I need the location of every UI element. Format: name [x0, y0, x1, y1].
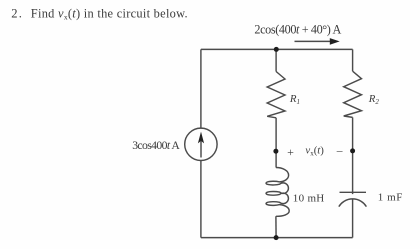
inductor L1 10 mH [266, 168, 289, 217]
svg-text:–: – [336, 145, 343, 157]
capacitor C1 top plate [340, 191, 367, 193]
svg-text:A: A [171, 139, 180, 152]
svg-text:R1: R1 [289, 93, 300, 106]
svg-text:10 mH: 10 mH [293, 193, 325, 205]
current source I1 arrow shaft [200, 141, 202, 158]
current direction arrowhead [330, 38, 340, 45]
resistor R2 [344, 71, 362, 117]
node dot bottom [274, 235, 279, 240]
svg-text:1 mF: 1 mF [378, 192, 403, 204]
wire bottom [201, 237, 353, 239]
current source I1 circle [185, 128, 217, 160]
node dot top [274, 47, 279, 52]
node dot vx minus [350, 148, 355, 153]
svg-text:2cos(400t + 40°) A: 2cos(400t + 40°) A [254, 22, 341, 36]
resistor R1 [267, 72, 285, 118]
svg-text:3cos400t: 3cos400t [132, 139, 171, 152]
wire middle branch mid [275, 118, 277, 168]
wire right rail mid [352, 117, 354, 194]
svg-text:2.: 2. [11, 7, 23, 21]
wire middle branch lower [275, 216, 277, 237]
current source I1 arrowhead [198, 132, 204, 144]
wire top [201, 48, 353, 50]
wire middle branch upper [275, 49, 277, 71]
node dot vx plus [273, 149, 278, 154]
wire right rail upper [352, 49, 354, 71]
svg-text:vx(t): vx(t) [305, 145, 324, 158]
wire left rail lower [200, 161, 202, 238]
wire right rail lower [352, 199, 354, 237]
svg-text:+: + [287, 145, 294, 159]
capacitor C1 curved plate [339, 199, 367, 207]
current direction arrow shaft [295, 40, 332, 42]
svg-text:Find vx(t) in the circuit belo: Find vx(t) in the circuit below. [31, 7, 188, 22]
wire left rail upper [200, 49, 202, 128]
svg-text:R2: R2 [368, 93, 380, 106]
